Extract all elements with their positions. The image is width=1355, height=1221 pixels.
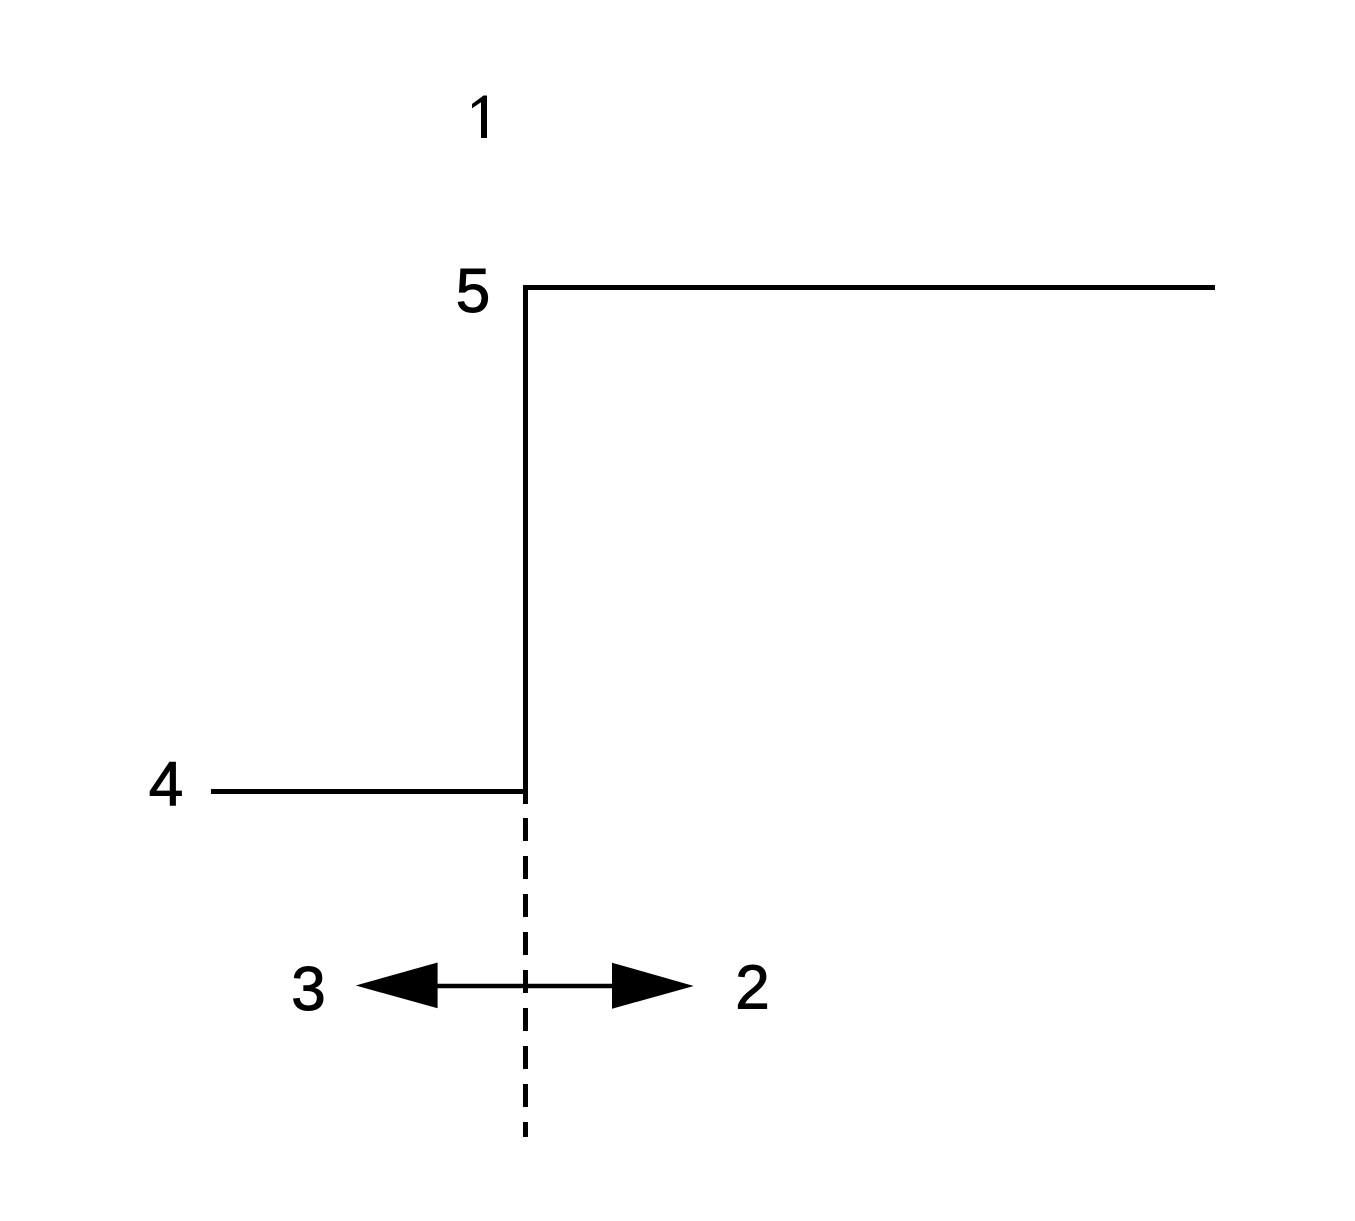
- right arrowhead: [612, 963, 694, 1009]
- svg-text:4: 4: [149, 750, 183, 819]
- solid L-shaped line (step profile, top edge and vertical edge): [526, 288, 1216, 805]
- svg-text:5: 5: [456, 257, 490, 326]
- svg-text:3: 3: [291, 955, 325, 1024]
- svg-text:2: 2: [735, 954, 769, 1023]
- dashed vertical line (axis): [523, 818, 528, 1137]
- left arrowhead: [356, 963, 438, 1009]
- solid horizontal line at numeral 4: [211, 789, 528, 794]
- reference numeral 1: [472, 96, 487, 139]
- double-headed arrow shaft: [437, 984, 612, 989]
